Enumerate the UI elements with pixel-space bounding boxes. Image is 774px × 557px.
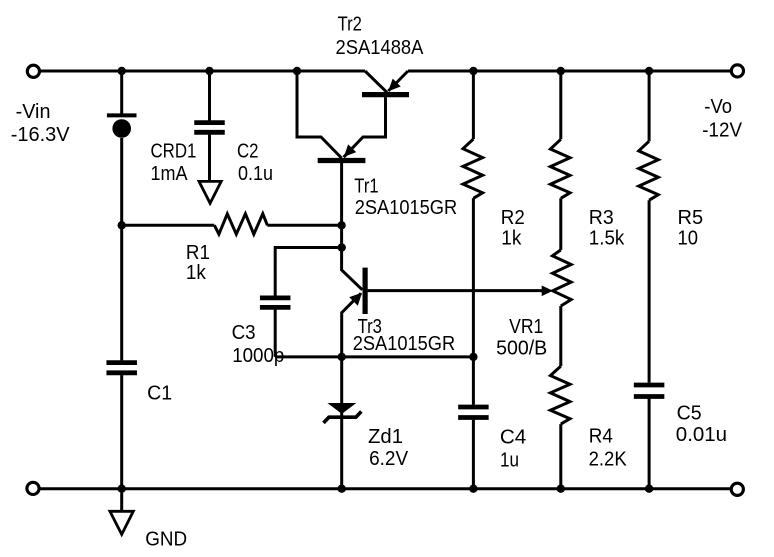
svg-text:500/B: 500/B xyxy=(496,337,547,359)
svg-text:10: 10 xyxy=(678,228,699,250)
svg-text:GND: GND xyxy=(145,528,187,550)
svg-text:2SA1015GR: 2SA1015GR xyxy=(353,333,456,355)
svg-text:-Vin: -Vin xyxy=(16,101,51,123)
svg-text:C3: C3 xyxy=(232,322,256,344)
svg-text:-12V: -12V xyxy=(702,119,742,141)
svg-text:R2: R2 xyxy=(501,207,525,229)
svg-text:1000p: 1000p xyxy=(232,345,284,367)
svg-text:2SA1015GR: 2SA1015GR xyxy=(355,197,458,219)
svg-text:R4: R4 xyxy=(589,426,613,448)
svg-text:2.2K: 2.2K xyxy=(589,449,628,471)
svg-text:-16.3V: -16.3V xyxy=(11,124,71,146)
svg-text:C1: C1 xyxy=(147,382,172,404)
svg-text:2SA1488A: 2SA1488A xyxy=(336,37,425,59)
svg-text:CRD1: CRD1 xyxy=(151,141,197,163)
svg-text:C4: C4 xyxy=(500,427,526,449)
svg-text:Zd1: Zd1 xyxy=(368,426,403,448)
svg-text:R1: R1 xyxy=(186,242,210,264)
svg-text:Tr2: Tr2 xyxy=(338,14,362,36)
svg-text:1k: 1k xyxy=(501,228,522,250)
svg-text:-Vo: -Vo xyxy=(704,96,732,118)
svg-text:0.01u: 0.01u xyxy=(676,424,727,446)
svg-text:6.2V: 6.2V xyxy=(369,448,409,470)
svg-text:C2: C2 xyxy=(237,141,259,163)
svg-text:R5: R5 xyxy=(678,207,704,229)
svg-text:1mA: 1mA xyxy=(151,163,189,185)
svg-text:0.1u: 0.1u xyxy=(238,163,273,185)
svg-text:C5: C5 xyxy=(677,403,702,425)
svg-text:VR1: VR1 xyxy=(509,316,543,338)
svg-text:1.5k: 1.5k xyxy=(589,228,625,250)
svg-text:1u: 1u xyxy=(500,450,519,472)
svg-text:Tr1: Tr1 xyxy=(354,176,378,198)
svg-text:1k: 1k xyxy=(186,262,207,284)
svg-text:R3: R3 xyxy=(589,207,614,229)
